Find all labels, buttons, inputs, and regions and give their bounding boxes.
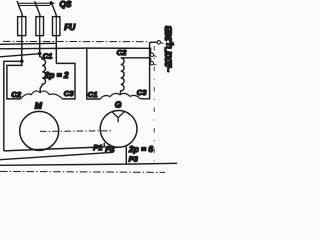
generator wire C1 riser <box>87 48 101 99</box>
wire phase3 staircase to motor C3 <box>56 63 75 99</box>
output terminal 3 circle <box>150 62 153 65</box>
svg-text:2p = 6: 2p = 6 <box>128 144 153 154</box>
QS linkage bar lower line <box>19 4 50 6</box>
switch QS blade 2 <box>35 1 41 16</box>
svg-text:P1: P1 <box>93 143 102 152</box>
svg-text:M: M <box>35 101 43 111</box>
motor circle <box>20 111 59 150</box>
wire long horizontal C2 output <box>0 48 151 53</box>
switch QS blade 1 <box>17 1 23 16</box>
svg-text:FU: FU <box>64 23 76 32</box>
terminal 2 tick <box>154 56 157 57</box>
motor winding garland <box>21 91 63 99</box>
output terminal 2 circle <box>150 53 153 56</box>
enclosure dash-dot top edge <box>3 40 149 42</box>
wire from left edge to phase3 junction <box>0 43 56 44</box>
svg-text:C2: C2 <box>117 48 127 57</box>
motor stator coil (vertical) <box>40 54 46 93</box>
node phase1 junction dot <box>20 60 24 64</box>
svg-text:QS: QS <box>60 0 72 9</box>
output terminal 1 wire <box>150 41 157 43</box>
wire phase 3 vertical <box>55 15 57 63</box>
wire phase1 branch to motor C2 (inner staircase) <box>7 61 22 99</box>
svg-text:P2: P2 <box>105 145 115 154</box>
fuse FU1 <box>18 17 26 36</box>
wire from left edge to node C1 <box>0 54 40 57</box>
shaft dash-dot coupling <box>40 130 111 133</box>
QS linkage bar upper line <box>19 2 51 4</box>
rotor bus P1 <box>4 143 105 151</box>
terminal 3 tick <box>154 64 157 65</box>
svg-text:C2: C2 <box>11 90 21 99</box>
wire phase1 branch to rotor bus (outer staircase) <box>4 61 22 151</box>
svg-text:~200Гц,36В: ~200Гц,36В <box>163 26 174 73</box>
rotor bus P3 <box>0 146 177 165</box>
QS linkage arrowhead <box>50 1 55 5</box>
svg-text:C1: C1 <box>88 90 98 99</box>
generator stator coil vertical <box>120 58 151 95</box>
svg-text:P3: P3 <box>129 155 139 164</box>
wire phase 1 vertical <box>21 16 23 62</box>
fuse FU2 <box>36 17 44 36</box>
star symbol Y inside generator <box>112 112 125 123</box>
wire phase 2 vertical <box>39 16 41 54</box>
enclosure dash-dot bottom edge <box>0 171 165 172</box>
output terminal 3 wire jog <box>150 58 152 62</box>
switch QS blade 3 <box>51 1 57 16</box>
fuse FU3 <box>53 17 60 36</box>
generator wire C3 riser <box>140 42 149 99</box>
output terminal 1 circle <box>157 41 160 44</box>
svg-text:C3: C3 <box>137 88 147 97</box>
terminal 1 tick <box>161 43 164 44</box>
svg-text:C3: C3 <box>64 89 74 98</box>
svg-text:G: G <box>115 100 122 110</box>
rotor bus P2 <box>0 146 113 160</box>
svg-text:2p = 2: 2p = 2 <box>44 70 69 80</box>
node C1 junction dot <box>38 52 42 56</box>
generator circle <box>100 110 137 147</box>
enclosure dash-dot right edge <box>153 46 155 168</box>
generator winding garland <box>100 93 140 99</box>
